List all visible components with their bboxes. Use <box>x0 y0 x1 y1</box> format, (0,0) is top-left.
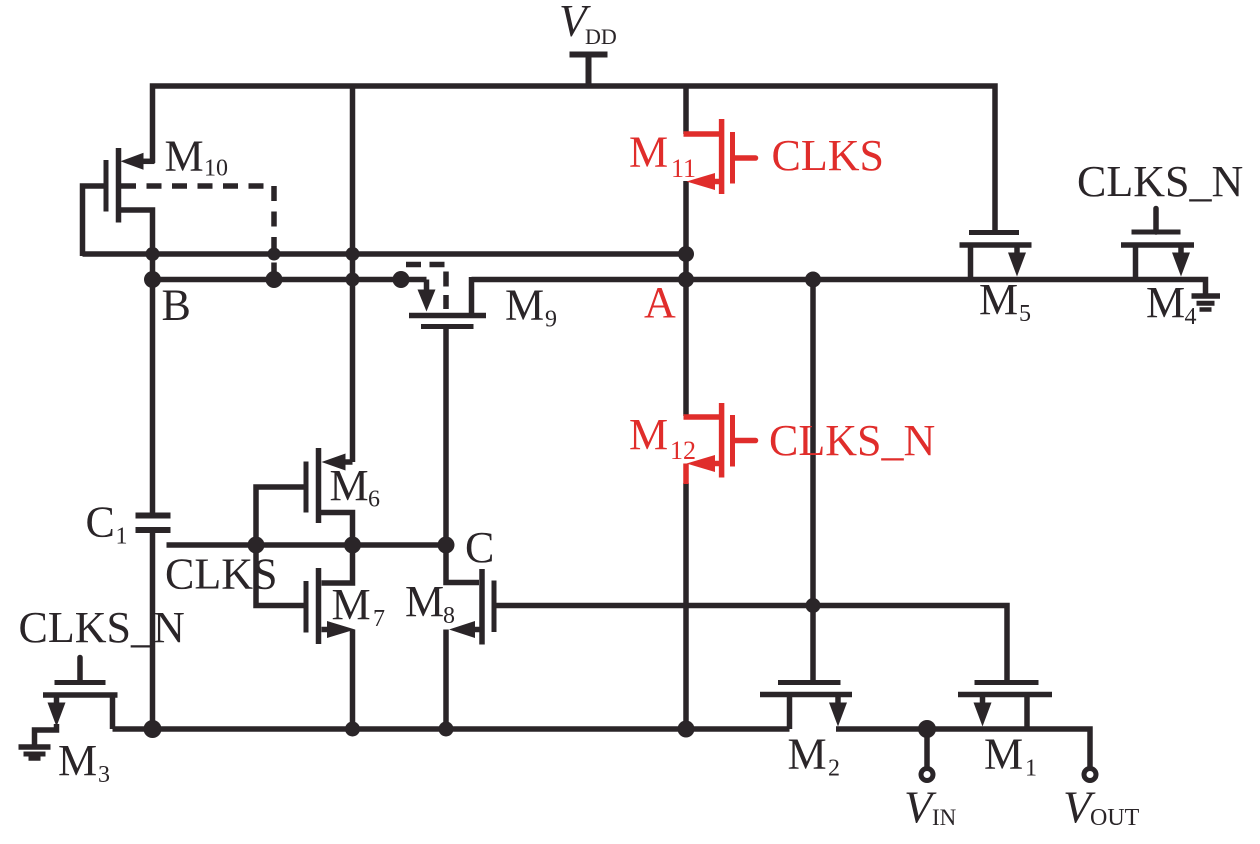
wire node B upper gate line <box>83 251 687 257</box>
transistor M11 gate lead red <box>735 155 756 161</box>
svg-text:2: 2 <box>828 756 840 782</box>
node dot bottom rail x152 <box>144 720 162 738</box>
wire M3 gate stem <box>77 658 83 683</box>
terminal VOUT open circle <box>1084 769 1096 781</box>
transistor M10 gate bar <box>104 160 109 212</box>
wire M6 source lead <box>319 513 353 546</box>
ground left bar3 <box>29 756 41 761</box>
transistor M6 channel bar <box>316 448 322 523</box>
svg-text:IN: IN <box>932 805 957 830</box>
node dot B-line x152 <box>144 271 161 288</box>
svg-text:M: M <box>330 461 369 510</box>
transistor M2 channel bar <box>760 692 852 698</box>
transistor M3 arrow <box>48 703 66 727</box>
transistor M11 channel bar red <box>719 119 725 194</box>
wire M10 source lead <box>119 210 153 281</box>
svg-text:A: A <box>644 278 676 327</box>
svg-text:4: 4 <box>1185 304 1197 330</box>
wire M2 to M1 with VIN tap <box>836 729 1090 768</box>
transistor M6 gate bar <box>304 462 309 513</box>
transistor M8 arrow <box>449 621 475 638</box>
wire M10 gate lead <box>83 186 105 256</box>
svg-text:6: 6 <box>368 487 380 513</box>
transistor M11 source lead red <box>712 179 719 185</box>
capacitor C1 bottom plate <box>136 527 171 533</box>
ground right bar3 <box>1200 307 1212 312</box>
power VDD bar <box>570 52 608 58</box>
wire M9 gate lead down to node C <box>443 329 449 545</box>
transistor M9 gate bar <box>421 324 474 329</box>
transistor M4 channel bar <box>1121 242 1194 248</box>
wire node C line with CLKS stub <box>167 542 447 548</box>
ground left bar1 <box>19 744 51 750</box>
wire M6 drain lead <box>345 459 353 465</box>
svg-text:CLKS_N: CLKS_N <box>769 416 935 465</box>
ground right bar2 <box>1197 301 1215 306</box>
wire gate line M8 to M1 <box>497 606 1008 685</box>
transistor M12 drain lead red <box>684 414 720 420</box>
capacitor C1 top plate <box>136 513 171 519</box>
svg-text:5: 5 <box>1019 301 1031 327</box>
node dot A-line x813 <box>805 272 821 288</box>
svg-text:M: M <box>405 577 444 626</box>
node dot VIN tap <box>918 720 936 738</box>
svg-text:1: 1 <box>116 524 128 550</box>
transistor M10 arrow <box>121 153 144 170</box>
transistor M1 channel bar <box>958 692 1052 698</box>
node dot bottom rail x352 <box>345 722 360 737</box>
svg-text:C: C <box>465 523 494 572</box>
transistor M7 channel bar <box>316 568 322 644</box>
wire column x686 M12 to bottom rail <box>683 483 689 729</box>
node dot upper line x274 <box>268 248 281 261</box>
transistor M1 arrow <box>974 703 992 727</box>
node dot C <box>438 537 455 554</box>
wire column x686 rail to M11 <box>683 86 689 134</box>
node dot upper line x152 <box>146 247 160 261</box>
wire M1 drain lead <box>1024 697 1030 729</box>
svg-text:CLKS_N: CLKS_N <box>1077 157 1243 206</box>
wire M8 drain lead <box>446 545 479 583</box>
ground right bar1 <box>1192 293 1221 299</box>
node dot B-line x274 <box>266 271 283 288</box>
wire column x813 node A to M2 gate <box>810 280 816 685</box>
wire node B to capacitor C1 <box>150 280 156 513</box>
wire M2 source lead <box>835 697 841 703</box>
svg-text:8: 8 <box>443 603 455 629</box>
svg-text:DD: DD <box>585 24 617 49</box>
svg-text:M: M <box>1146 278 1185 327</box>
svg-text:M: M <box>788 730 827 779</box>
wire VDD top rail with left and right drops <box>153 86 996 233</box>
transistor M3 gate bar <box>55 680 106 685</box>
node dot A <box>678 272 694 288</box>
transistor M10 channel bar <box>116 148 122 223</box>
node dot C-line x352 <box>344 537 361 554</box>
transistor M4 arrow <box>1172 253 1190 277</box>
power VDD stem <box>586 54 592 89</box>
svg-text:M: M <box>332 580 371 629</box>
transistor M6 arrow <box>322 454 346 471</box>
wire dashed M10 gate to node B <box>121 186 274 277</box>
wire column x352 from rail to M6 <box>350 86 356 462</box>
svg-text:B: B <box>162 281 191 330</box>
transistor M9 channel bar <box>409 313 486 319</box>
wire M1 source lead <box>980 697 986 703</box>
wire node B line <box>153 277 427 283</box>
wire M5 source lead <box>1014 247 1020 254</box>
svg-text:M: M <box>505 281 544 330</box>
transistor M11 drain lead red <box>684 131 720 137</box>
transistor M12 gate lead red <box>735 438 756 444</box>
wire M12 source stub red <box>683 464 689 485</box>
wire M3 source lead <box>54 697 60 703</box>
node dot gate line x813 <box>806 598 821 613</box>
wire M8 source lead <box>474 627 480 633</box>
wire M7 gate lead <box>256 548 304 606</box>
node dot upper line x352 <box>346 247 360 261</box>
wire M7 source to bottom rail <box>350 630 356 730</box>
node dot B-line x352 <box>346 273 360 287</box>
wire capacitor C1 to bottom rail <box>150 533 156 729</box>
svg-text:12: 12 <box>670 436 696 465</box>
svg-text:CLKS_N: CLKS_N <box>19 603 185 652</box>
transistor M2 gate bar <box>778 680 841 685</box>
node dot M9 drain <box>393 271 410 288</box>
wire M9 drain lead <box>424 280 430 293</box>
svg-text:OUT: OUT <box>1090 805 1140 831</box>
transistor M7 arrow <box>327 621 355 638</box>
terminal VIN open circle <box>921 769 933 781</box>
transistor M11 gate bar red <box>730 132 735 184</box>
transistor M2 arrow <box>829 703 847 727</box>
node dot bottom rail x686 <box>678 721 695 738</box>
transistor M5 channel bar <box>960 242 1032 248</box>
transistor M5 arrow <box>1008 253 1026 277</box>
transistor M12 source lead red <box>712 461 719 467</box>
transistor M1 gate bar <box>975 680 1039 685</box>
wire M4 drain lead <box>1133 247 1139 280</box>
transistor M3 channel bar <box>43 692 118 698</box>
wire M8 source to bottom rail <box>443 630 449 730</box>
node dot C-line x256 <box>248 537 265 554</box>
wire M10 drain lead <box>143 159 155 165</box>
svg-text:3: 3 <box>98 762 110 788</box>
svg-text:9: 9 <box>545 307 557 333</box>
svg-text:CLKS: CLKS <box>165 550 277 599</box>
wire M5 drain lead <box>968 247 974 280</box>
wire M6 gate lead <box>256 487 304 545</box>
transistor M12 arrow red <box>687 455 716 472</box>
ground left bar2 <box>24 752 46 757</box>
transistor M11 arrow red <box>687 173 716 190</box>
svg-text:M: M <box>629 128 668 177</box>
transistor M7 gate bar <box>304 581 309 633</box>
svg-text:11: 11 <box>671 154 696 183</box>
transistor M9 arrow <box>418 290 436 312</box>
svg-text:C: C <box>86 498 115 547</box>
wire bottom rail <box>113 726 790 732</box>
svg-text:7: 7 <box>373 606 385 632</box>
wire VIN stub <box>924 729 930 768</box>
wire node A line <box>472 280 1206 295</box>
node dot bottom rail x446 <box>439 722 454 737</box>
transistor M4 gate bar <box>1132 230 1181 235</box>
transistor M12 channel bar red <box>719 403 725 478</box>
transistor M12 gate bar red <box>730 415 735 467</box>
svg-text:M: M <box>629 410 668 459</box>
transistor M8 channel bar <box>479 569 485 645</box>
svg-text:M: M <box>979 275 1018 324</box>
wire M7 drain lead <box>322 545 353 583</box>
svg-text:M: M <box>58 736 97 785</box>
wire M3 source to ground <box>35 724 57 745</box>
wire M3 drain lead <box>110 697 116 729</box>
svg-text:CLKS: CLKS <box>772 131 884 180</box>
svg-text:M: M <box>984 730 1023 779</box>
wire M7 source lead <box>322 627 332 633</box>
node dot upper line end x686 <box>678 246 694 262</box>
wire M4 source lead <box>1178 247 1184 254</box>
transistor M8 gate bar <box>492 581 497 633</box>
svg-text:1: 1 <box>1025 756 1037 782</box>
svg-text:10: 10 <box>204 156 228 182</box>
transistor M5 gate bar <box>969 230 1019 235</box>
svg-text:M: M <box>165 132 204 181</box>
wire M4 gate stem <box>1153 209 1159 233</box>
wire column x686 M11 to M12 <box>683 181 689 416</box>
wire M9 source lead <box>469 277 475 313</box>
wire M2 drain lead <box>787 697 793 729</box>
wire dashed M9 gate to node B line <box>406 265 446 310</box>
